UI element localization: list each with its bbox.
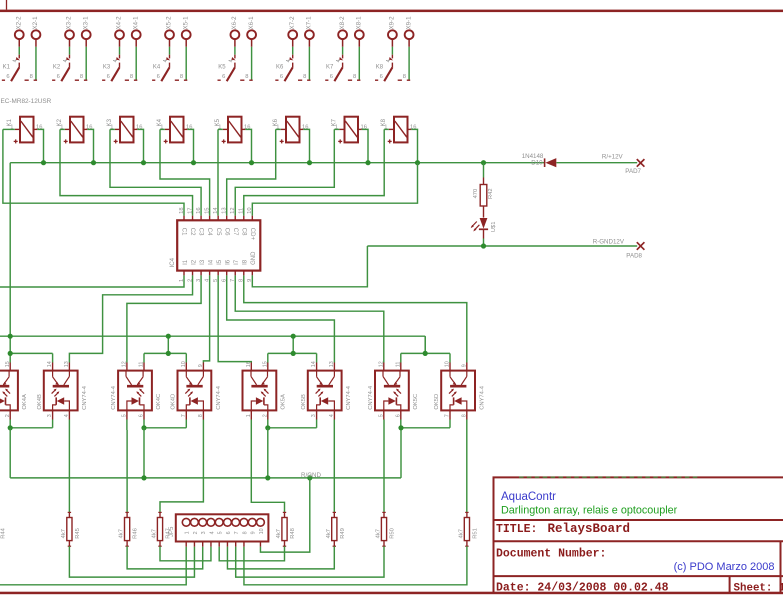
svg-text:4: 4 [163,59,169,62]
svg-text:K1: K1 [3,64,11,70]
svg-text:CNY74-4: CNY74-4 [368,385,374,410]
svg-text:8: 8 [180,74,183,80]
svg-text:8: 8 [80,74,83,80]
svg-text:AquaContr: AquaContr [501,491,556,503]
svg-text:10: 10 [247,207,253,213]
svg-text:11: 11 [239,208,245,214]
svg-text:4: 4 [386,59,392,62]
svg-text:16: 16 [361,124,367,130]
svg-text:6: 6 [222,74,225,80]
svg-text:OK5B: OK5B [301,394,307,410]
svg-text:3: 3 [201,531,207,534]
svg-text:C3: C3 [198,228,204,236]
svg-text:8: 8 [30,74,33,80]
svg-text:OK5D: OK5D [434,394,440,410]
svg-text:C1: C1 [181,228,187,236]
svg-text:C8: C8 [240,228,246,236]
svg-text:X5-1: X5-1 [182,16,189,30]
svg-text:PAD7: PAD7 [625,168,641,175]
svg-text:9: 9 [198,364,204,367]
svg-text:8: 8 [245,74,248,80]
svg-text:4: 4 [64,414,70,417]
svg-text:R44: R44 [1,527,7,538]
svg-text:I5: I5 [217,259,223,265]
svg-text:X3-2: X3-2 [66,16,73,30]
svg-text:I3: I3 [200,259,206,265]
svg-text:IC4: IC4 [169,257,176,267]
svg-text:CNY74-4: CNY74-4 [480,385,486,410]
svg-text:X6-1: X6-1 [248,16,255,30]
svg-text:6: 6 [380,74,383,80]
svg-text:K6: K6 [273,118,279,126]
svg-text:I4: I4 [208,259,214,265]
svg-text:I6: I6 [226,259,232,265]
svg-text:K3: K3 [107,118,113,126]
svg-text:CNY74-4: CNY74-4 [111,385,117,410]
svg-text:16: 16 [244,124,250,130]
svg-text:I1: I1 [183,259,189,265]
svg-text:8: 8 [461,414,467,417]
svg-text:K1: K1 [7,118,13,126]
svg-text:(c) PDO Marzo 2008: (c) PDO Marzo 2008 [674,561,775,573]
svg-text:K6: K6 [276,64,284,70]
svg-text:6: 6 [157,74,160,80]
svg-text:R49: R49 [340,528,346,539]
svg-text:16: 16 [86,124,92,130]
svg-text:R-GND12V: R-GND12V [593,239,625,246]
svg-text:12: 12 [230,207,236,213]
svg-text:4: 4 [286,59,292,62]
svg-text:6: 6 [330,74,333,80]
svg-text:C5: C5 [215,228,221,236]
svg-text:4: 4 [209,531,215,534]
svg-text:I2: I2 [191,259,197,265]
svg-text:8: 8 [198,414,204,417]
svg-text:Darlington array, relais e opt: Darlington array, relais e optocoupler [501,505,678,517]
svg-text:3: 3 [47,414,53,417]
svg-text:16: 16 [136,124,142,130]
svg-text:X3-1: X3-1 [82,16,89,30]
svg-text:4k7: 4k7 [119,529,125,538]
svg-text:4: 4 [228,59,234,62]
svg-text:X4-1: X4-1 [132,16,139,30]
svg-text:8: 8 [130,74,133,80]
svg-text:R46: R46 [133,528,139,539]
svg-text:R48: R48 [290,528,296,539]
svg-text:7: 7 [234,531,240,534]
svg-text:GND: GND [251,251,257,265]
svg-text:6: 6 [280,74,283,80]
svg-text:K8: K8 [376,64,384,70]
svg-text:X6-2: X6-2 [231,16,238,30]
svg-text:K7: K7 [326,64,334,70]
svg-text:9: 9 [461,364,467,367]
svg-text:OK4D: OK4D [171,394,177,410]
svg-text:CNY74-4: CNY74-4 [82,385,88,410]
svg-text:X7-2: X7-2 [289,16,296,30]
svg-text:K2: K2 [57,118,63,126]
svg-text:K5: K5 [218,64,226,70]
svg-text:4: 4 [329,414,335,417]
svg-text:16: 16 [36,124,42,130]
svg-text:OK4C: OK4C [156,394,162,410]
svg-text:15: 15 [204,207,210,213]
svg-text:4: 4 [63,59,69,62]
svg-text:OK4B: OK4B [37,394,43,410]
svg-text:8: 8 [242,531,248,534]
svg-text:17: 17 [187,207,193,213]
svg-text:13: 13 [222,207,228,213]
svg-text:14: 14 [213,207,219,214]
svg-text:PAD8: PAD8 [626,253,642,260]
svg-text:CD+: CD+ [249,228,255,241]
svg-text:4k7: 4k7 [152,529,158,538]
svg-text:16: 16 [410,124,416,130]
svg-text:K7: K7 [331,118,337,126]
svg-text:4: 4 [113,59,119,62]
svg-text:C4: C4 [206,228,212,236]
svg-text:R50: R50 [390,528,396,539]
svg-text:6: 6 [57,74,60,80]
svg-text:C6: C6 [223,228,229,236]
svg-text:X5-2: X5-2 [166,16,173,30]
svg-text:K3: K3 [103,64,111,70]
svg-text:X9-1: X9-1 [405,16,412,30]
svg-text:R/GND: R/GND [301,472,321,479]
svg-text:4: 4 [13,59,19,62]
svg-text:D10: D10 [531,159,543,166]
svg-text:5: 5 [218,531,224,534]
svg-text:X9-2: X9-2 [389,16,396,30]
svg-text:I7: I7 [234,259,240,265]
svg-text:Date: 24/03/2008 00.02.48: Date: 24/03/2008 00.02.48 [496,582,669,595]
svg-text:R51: R51 [473,528,479,539]
svg-text:10: 10 [259,528,265,534]
svg-text:X2-1: X2-1 [32,16,39,30]
svg-text:CNY74-4: CNY74-4 [346,385,352,410]
svg-text:TITLE:: TITLE: [496,523,537,536]
svg-text:JP5: JP5 [169,526,175,537]
svg-text:4k7: 4k7 [326,529,332,538]
svg-text:8: 8 [403,74,406,80]
svg-text:OK5C: OK5C [413,394,419,410]
svg-text:R42: R42 [488,188,494,199]
svg-text:8: 8 [353,74,356,80]
svg-text:6: 6 [395,414,401,417]
svg-text:5: 5 [122,414,128,417]
svg-text:C7: C7 [232,228,238,236]
svg-text:6: 6 [226,531,232,534]
svg-text:I8: I8 [243,259,249,265]
svg-text:X8-1: X8-1 [356,16,363,30]
svg-text:6: 6 [6,74,9,80]
svg-text:2: 2 [193,531,199,534]
svg-text:K2: K2 [53,64,61,70]
svg-text:X7-1: X7-1 [306,16,313,30]
svg-text:6: 6 [139,414,145,417]
svg-text:9: 9 [251,531,257,534]
svg-text:4k7: 4k7 [376,529,382,538]
svg-text:K5: K5 [215,118,221,126]
svg-text:4k7: 4k7 [61,529,67,538]
svg-text:EC-MR82-12USR: EC-MR82-12USR [1,98,52,105]
svg-text:CNY74-4: CNY74-4 [216,385,222,410]
svg-text:16: 16 [302,124,308,130]
svg-text:K8: K8 [381,118,387,126]
svg-text:R/+12V: R/+12V [602,154,624,161]
svg-text:5: 5 [378,414,384,417]
svg-text:8: 8 [303,74,306,80]
svg-text:1: 1 [246,414,252,417]
svg-text:OK4A: OK4A [22,394,28,410]
svg-text:6: 6 [107,74,110,80]
svg-text:1: 1 [185,531,191,534]
svg-text:X4-2: X4-2 [116,16,123,30]
svg-text:Document Number:: Document Number: [496,548,606,561]
svg-text:2: 2 [5,414,11,417]
svg-text:C2: C2 [189,228,195,236]
svg-text:4k7: 4k7 [459,529,465,538]
svg-text:16: 16 [186,124,192,130]
svg-text:K4: K4 [157,118,163,126]
svg-text:X8-2: X8-2 [339,16,346,30]
svg-text:3: 3 [311,414,317,417]
svg-text:4: 4 [336,59,342,62]
svg-text:16: 16 [196,207,202,213]
svg-text:K4: K4 [153,64,161,70]
svg-text:2: 2 [262,414,268,417]
svg-text:OK5A: OK5A [280,394,286,410]
svg-text:X2-2: X2-2 [15,16,22,30]
svg-text:RelaysBoard: RelaysBoard [548,522,631,536]
svg-text:R45: R45 [75,528,81,539]
svg-text:U$1: U$1 [491,222,497,233]
svg-text:Sheet: 1/1: Sheet: 1/1 [734,582,783,594]
svg-text:18: 18 [179,207,185,213]
svg-text:7: 7 [445,414,451,417]
svg-text:470: 470 [473,189,479,199]
svg-text:4k7: 4k7 [276,529,282,538]
svg-text:7: 7 [181,414,187,417]
